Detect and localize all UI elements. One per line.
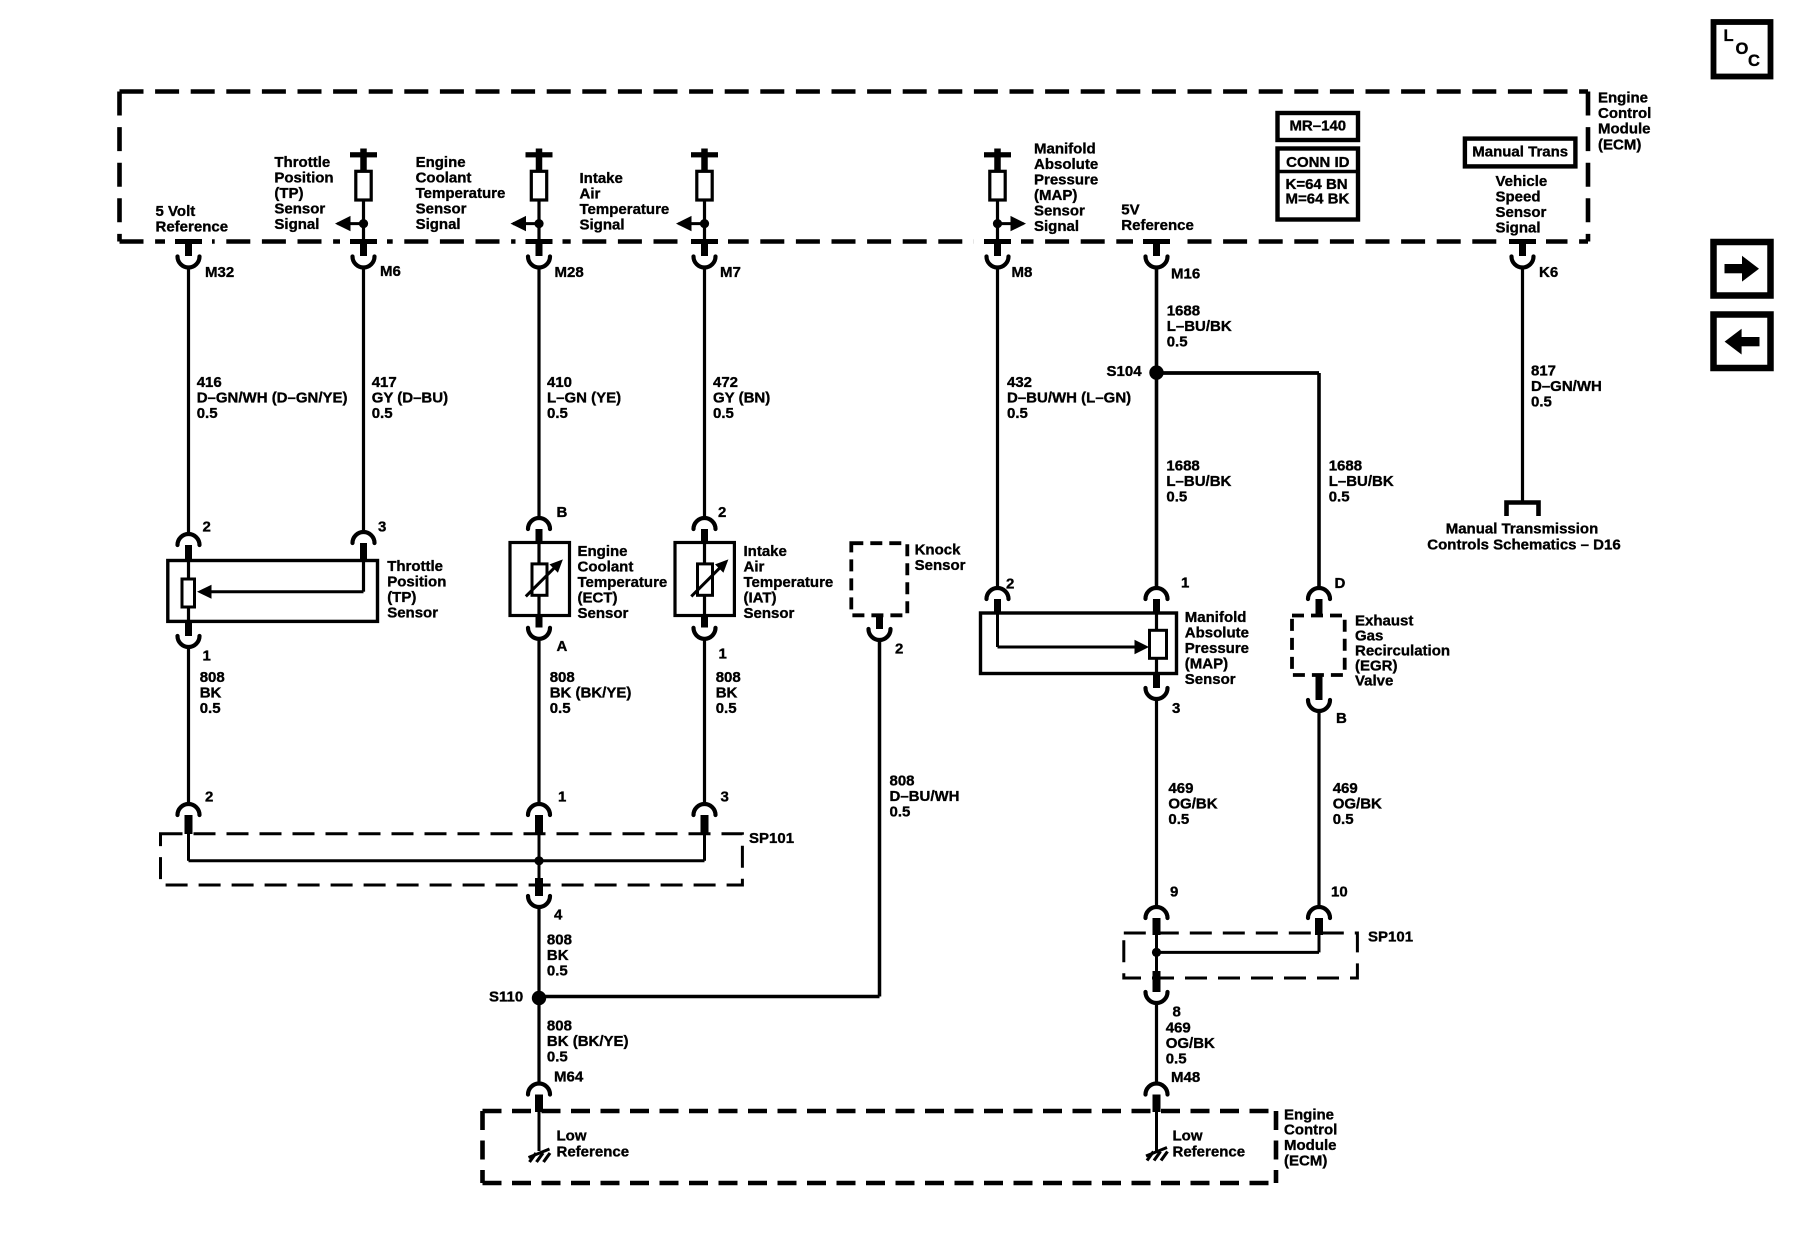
connector M48 xyxy=(1146,1069,1201,1112)
svg-text:0.5: 0.5 xyxy=(197,405,218,422)
exhaust gas recirculation (EGR) valve dashed box xyxy=(1292,616,1345,676)
svg-text:0.5: 0.5 xyxy=(713,405,734,422)
svg-text:OG/BK: OG/BK xyxy=(1166,1035,1215,1052)
wire 469 SP101 pin8 to M48 xyxy=(1155,1003,1158,1084)
svg-text:Sensor: Sensor xyxy=(744,605,795,622)
connector M8 (pin M8) xyxy=(974,238,1032,281)
svg-text:0.5: 0.5 xyxy=(1166,488,1187,505)
SP101 pin 8 connector xyxy=(1146,952,1181,1020)
svg-text:Manifold: Manifold xyxy=(1034,140,1096,157)
svg-text:469: 469 xyxy=(1333,780,1358,797)
svg-text:O: O xyxy=(1736,40,1749,58)
svg-text:Low: Low xyxy=(1173,1127,1203,1144)
TP sensor signal arrow xyxy=(335,216,368,231)
ECT sensor pin A connector xyxy=(528,616,568,655)
svg-text:1688: 1688 xyxy=(1329,457,1362,474)
svg-text:Temperature: Temperature xyxy=(580,201,670,218)
MAP sensor internal resistor xyxy=(1150,613,1167,674)
svg-text:Air: Air xyxy=(744,559,765,576)
resistor R-ECT inside ECM at M28 xyxy=(526,149,553,242)
svg-text:D–BU/WH: D–BU/WH xyxy=(890,788,960,805)
wire 808 IAT pin1 to SP101 pin3 xyxy=(703,638,706,804)
label wire 417 xyxy=(372,374,448,422)
svg-text:(TP): (TP) xyxy=(387,589,416,606)
svg-text:L–BU/BK: L–BU/BK xyxy=(1167,318,1232,335)
svg-text:Throttle: Throttle xyxy=(387,558,443,575)
svg-text:MR–140: MR–140 xyxy=(1289,118,1346,135)
svg-text:808: 808 xyxy=(550,669,575,686)
svg-text:808: 808 xyxy=(547,931,572,948)
svg-text:BK: BK xyxy=(716,684,738,701)
svg-text:M28: M28 xyxy=(555,264,584,281)
svg-text:808: 808 xyxy=(200,669,225,686)
label SP101 left xyxy=(749,830,794,847)
label Vehicle Speed Sensor Signal xyxy=(1496,173,1548,237)
SP101 pin 2 connector xyxy=(178,788,214,834)
ECT sensor signal arrow xyxy=(511,216,544,231)
svg-text:1688: 1688 xyxy=(1167,302,1200,319)
engine control module (ECM) bottom dashed box xyxy=(483,1111,1277,1183)
M64 low reference wire and ground xyxy=(529,1112,551,1162)
svg-text:0.5: 0.5 xyxy=(1329,488,1350,505)
wire 808 SP101 pin4 to S110 xyxy=(537,907,540,999)
svg-text:(TP): (TP) xyxy=(274,185,303,202)
svg-text:BK: BK xyxy=(200,684,222,701)
label wire 808 ECT xyxy=(550,669,632,717)
svg-text:C: C xyxy=(1748,52,1760,70)
label 5 Volt Reference xyxy=(156,203,229,236)
resistor R-IAT inside ECM at M7 xyxy=(691,149,718,242)
label Intake Air Temperature Signal xyxy=(580,170,670,234)
svg-text:Air: Air xyxy=(580,186,601,203)
resistor R-MAP inside ECM at M8 xyxy=(984,149,1011,242)
svg-text:M6: M6 xyxy=(380,263,401,280)
svg-text:M=64 BK: M=64 BK xyxy=(1286,191,1350,208)
SP101 pin 1 connector xyxy=(528,788,566,834)
svg-text:Knock: Knock xyxy=(915,541,962,558)
svg-text:410: 410 xyxy=(547,374,572,391)
label Engine Coolant Temperature (ECT) Sensor xyxy=(578,543,668,622)
wire 416 M32 to TP pin 2 xyxy=(187,267,190,535)
svg-text:469: 469 xyxy=(1168,780,1193,797)
svg-text:Intake: Intake xyxy=(744,543,787,560)
label Low Reference M64 xyxy=(557,1127,630,1160)
svg-text:Sensor: Sensor xyxy=(1185,671,1236,688)
label Engine Control Module (ECM) top right xyxy=(1598,89,1651,153)
svg-text:5V: 5V xyxy=(1121,202,1139,219)
svg-text:L: L xyxy=(1724,27,1734,45)
svg-text:(ECT): (ECT) xyxy=(578,590,618,607)
wire 808 S110 to M64 xyxy=(537,998,540,1084)
svg-text:416: 416 xyxy=(197,374,222,391)
svg-text:469: 469 xyxy=(1166,1019,1191,1036)
label Intake Air Temperature (IAT) Sensor xyxy=(744,543,834,622)
svg-text:0.5: 0.5 xyxy=(1333,811,1354,828)
svg-text:0.5: 0.5 xyxy=(372,405,393,422)
svg-text:0.5: 0.5 xyxy=(550,700,571,717)
svg-text:0.5: 0.5 xyxy=(547,1048,568,1065)
svg-text:10: 10 xyxy=(1331,883,1348,900)
svg-text:Low: Low xyxy=(557,1127,587,1144)
connector M6 (pin M6) xyxy=(340,238,401,280)
svg-text:Position: Position xyxy=(274,170,333,187)
svg-text:B: B xyxy=(557,504,568,521)
off-page connector to manual transmission schematics xyxy=(1507,503,1539,517)
svg-text:Pressure: Pressure xyxy=(1034,171,1098,188)
svg-text:Sensor: Sensor xyxy=(274,201,325,218)
connector M16 (pin M16) xyxy=(1133,238,1200,282)
svg-text:1688: 1688 xyxy=(1166,457,1199,474)
svg-text:Signal: Signal xyxy=(274,216,319,233)
svg-text:Engine: Engine xyxy=(416,154,466,171)
svg-text:M7: M7 xyxy=(720,264,741,281)
label wire 808 TP xyxy=(200,669,225,717)
svg-text:D–GN/WH (D–GN/YE): D–GN/WH (D–GN/YE) xyxy=(197,389,348,406)
svg-text:(IAT): (IAT) xyxy=(744,590,777,607)
svg-text:BK (BK/YE): BK (BK/YE) xyxy=(547,1033,629,1050)
MAP sensor pin 3 connector xyxy=(1146,674,1181,717)
svg-text:B: B xyxy=(1336,710,1347,727)
svg-text:1: 1 xyxy=(1181,574,1189,591)
svg-text:0.5: 0.5 xyxy=(716,700,737,717)
label Low Reference M48 xyxy=(1173,1127,1246,1160)
connector K6 (pin K6) xyxy=(1499,238,1558,281)
svg-text:Manual Transmission: Manual Transmission xyxy=(1446,520,1599,537)
label SP101 right xyxy=(1368,928,1413,945)
svg-text:Reference: Reference xyxy=(1173,1143,1246,1160)
splice pack SP101 left dashed box xyxy=(161,834,743,885)
svg-text:Control: Control xyxy=(1598,105,1651,122)
svg-text:M16: M16 xyxy=(1171,265,1200,282)
svg-text:M8: M8 xyxy=(1012,264,1033,281)
svg-text:Vehicle: Vehicle xyxy=(1496,173,1548,190)
label wire 808 knock xyxy=(890,772,960,820)
svg-text:Pressure: Pressure xyxy=(1185,640,1249,657)
svg-text:Temperature: Temperature xyxy=(744,574,834,591)
svg-text:0.5: 0.5 xyxy=(1167,333,1188,350)
engine coolant temperature (ECT) sensor box xyxy=(510,504,570,616)
svg-text:Coolant: Coolant xyxy=(578,559,634,576)
label wire 808 IAT xyxy=(716,669,741,717)
svg-text:9: 9 xyxy=(1170,883,1178,900)
splice S104 xyxy=(1107,363,1164,380)
svg-text:D: D xyxy=(1335,575,1346,592)
svg-text:Engine: Engine xyxy=(578,543,628,560)
LOC page-reference box xyxy=(1714,22,1771,77)
svg-text:BK (BK/YE): BK (BK/YE) xyxy=(550,684,632,701)
label Exhaust Gas Recirculation (EGR) Valve xyxy=(1355,612,1450,689)
svg-text:SP101: SP101 xyxy=(1368,928,1413,945)
label wire 469 EGR xyxy=(1333,780,1382,828)
svg-text:1: 1 xyxy=(719,645,727,662)
svg-text:M64: M64 xyxy=(554,1068,584,1085)
svg-text:Signal: Signal xyxy=(416,216,461,233)
svg-text:OG/BK: OG/BK xyxy=(1168,795,1217,812)
knock sensor pin 2 connector xyxy=(869,615,904,657)
svg-text:M48: M48 xyxy=(1171,1069,1200,1086)
wire 808 ECT pinA to SP101 pin1 xyxy=(537,638,540,804)
svg-text:1: 1 xyxy=(558,788,566,805)
label Throttle Position (TP) Sensor xyxy=(387,558,446,622)
svg-text:3: 3 xyxy=(378,518,386,535)
svg-text:A: A xyxy=(557,638,568,655)
svg-text:Signal: Signal xyxy=(580,217,625,234)
label wire 469 M48 xyxy=(1166,1019,1215,1067)
IAT sensor pin 1 connector xyxy=(694,616,727,663)
label wire 808 BK(BK/YE) xyxy=(547,1017,629,1065)
wire 817 K6 to manual transmission xyxy=(1521,267,1524,503)
svg-text:Temperature: Temperature xyxy=(578,574,668,591)
wire 410 M28 to ECT pin B xyxy=(537,267,540,519)
label wire 410 xyxy=(547,374,621,422)
TP sensor wiper arrow xyxy=(197,585,364,599)
svg-text:2: 2 xyxy=(895,640,903,657)
svg-text:2: 2 xyxy=(1006,575,1014,592)
label wire 432 xyxy=(1007,374,1131,422)
wire 432 M8 to MAP pin 2 xyxy=(996,267,999,590)
svg-text:Temperature: Temperature xyxy=(416,185,506,202)
svg-text:Manual Trans: Manual Trans xyxy=(1472,144,1568,161)
wire 469 EGR pinB to SP101 pin10 xyxy=(1317,711,1320,908)
svg-text:808: 808 xyxy=(547,1017,572,1034)
svg-text:Reference: Reference xyxy=(557,1143,630,1160)
SP101 left internal bus xyxy=(189,834,705,865)
svg-text:Controls Schematics – D16: Controls Schematics – D16 xyxy=(1427,536,1620,553)
connector M32 (pin M32) xyxy=(165,238,234,281)
label wire 1688 upper xyxy=(1167,302,1232,350)
svg-text:GY (BN): GY (BN) xyxy=(713,389,770,406)
label Throttle Position (TP) Sensor Signal xyxy=(274,154,333,233)
label Knock Sensor xyxy=(915,541,966,574)
svg-text:Sensor: Sensor xyxy=(1496,204,1547,221)
IAT sensor signal arrow xyxy=(676,216,709,231)
svg-text:Sensor: Sensor xyxy=(416,201,467,218)
SP101 pin 4 connector xyxy=(528,861,563,924)
svg-text:432: 432 xyxy=(1007,374,1032,391)
svg-text:Manifold: Manifold xyxy=(1185,609,1247,626)
EGR valve pin B connector xyxy=(1308,675,1347,727)
svg-text:Speed: Speed xyxy=(1496,188,1541,205)
TP sensor pin 1 connector xyxy=(178,621,211,664)
splice S110 xyxy=(489,988,546,1005)
svg-text:0.5: 0.5 xyxy=(547,962,568,979)
back-arrow navigation box xyxy=(1714,315,1771,369)
Manual Trans box xyxy=(1465,139,1576,167)
svg-text:Sensor: Sensor xyxy=(1034,202,1085,219)
svg-text:0.5: 0.5 xyxy=(1168,811,1189,828)
svg-text:L–BU/BK: L–BU/BK xyxy=(1329,473,1394,490)
ECT thermistor xyxy=(526,543,563,616)
splice pack SP101 right dashed box xyxy=(1124,933,1358,978)
label Engine Coolant Temperature Sensor Signal xyxy=(416,154,506,233)
svg-text:0.5: 0.5 xyxy=(1007,405,1028,422)
label Manual Transmission Controls Schematics xyxy=(1427,520,1620,553)
connector M64 xyxy=(528,1068,584,1112)
svg-text:Signal: Signal xyxy=(1034,218,1079,235)
wire 472 M7 to IAT pin 2 xyxy=(703,267,706,519)
svg-text:817: 817 xyxy=(1531,362,1556,379)
svg-text:CONN ID: CONN ID xyxy=(1286,154,1350,171)
svg-text:Coolant: Coolant xyxy=(416,170,472,187)
svg-text:0.5: 0.5 xyxy=(547,405,568,422)
svg-text:Absolute: Absolute xyxy=(1034,156,1098,173)
resistor R-TP inside ECM at M6 xyxy=(350,149,377,242)
svg-text:472: 472 xyxy=(713,374,738,391)
EGR valve pin D connector xyxy=(1308,575,1346,616)
svg-text:3: 3 xyxy=(721,788,729,805)
svg-text:4: 4 xyxy=(554,906,563,923)
manifold absolute pressure (MAP) sensor box xyxy=(981,574,1190,673)
svg-text:BK: BK xyxy=(547,947,569,964)
label wire 472 xyxy=(713,374,770,422)
MAP sensor internal arrow xyxy=(998,613,1150,654)
svg-text:Sensor: Sensor xyxy=(915,557,966,574)
wire S104 branch to EGR xyxy=(1157,373,1320,589)
svg-text:L–GN (YE): L–GN (YE) xyxy=(547,389,621,406)
svg-text:Engine: Engine xyxy=(1598,89,1648,106)
svg-text:Module: Module xyxy=(1598,121,1651,138)
svg-text:2: 2 xyxy=(205,788,213,805)
forward-arrow navigation box xyxy=(1714,242,1771,296)
label wire 817 xyxy=(1531,362,1602,410)
svg-text:808: 808 xyxy=(890,772,915,789)
svg-text:Throttle: Throttle xyxy=(274,154,330,171)
throttle position (TP) sensor box xyxy=(168,518,387,621)
wire 1688 M16 to S104 xyxy=(1155,267,1159,373)
label Manifold Absolute Pressure (MAP) Sensor xyxy=(1185,609,1249,688)
svg-text:2: 2 xyxy=(718,504,726,521)
svg-text:SP101: SP101 xyxy=(749,830,794,847)
svg-text:0.5: 0.5 xyxy=(1166,1050,1187,1067)
wire 808 TP pin1 to SP101 pin2 xyxy=(187,647,190,805)
knock sensor dashed box xyxy=(851,543,907,615)
svg-text:K6: K6 xyxy=(1539,264,1558,281)
svg-text:Intake: Intake xyxy=(580,170,623,187)
svg-text:(MAP): (MAP) xyxy=(1185,656,1228,673)
svg-text:1: 1 xyxy=(203,647,211,664)
SP101 right internal bus xyxy=(1152,935,1319,957)
svg-text:Valve: Valve xyxy=(1355,672,1393,689)
svg-text:OG/BK: OG/BK xyxy=(1333,795,1382,812)
label wire 469 MAP xyxy=(1168,780,1217,828)
MR-140 connector box xyxy=(1278,113,1359,140)
svg-text:0.5: 0.5 xyxy=(1531,393,1552,410)
svg-text:3: 3 xyxy=(1172,700,1180,717)
intake air temperature (IAT) sensor box xyxy=(675,504,734,616)
MAP sensor signal arrow xyxy=(993,216,1026,231)
label wire 416 xyxy=(197,374,348,422)
label wire 1688 left branch xyxy=(1166,457,1231,505)
svg-text:808: 808 xyxy=(716,669,741,686)
wire S110 to knock sensor branch xyxy=(539,995,880,999)
connector M7 (pin M7) xyxy=(681,238,741,281)
svg-text:8: 8 xyxy=(1173,1003,1181,1020)
svg-text:2: 2 xyxy=(203,518,211,535)
svg-text:GY (D–BU): GY (D–BU) xyxy=(372,389,448,406)
connector M28 (pin M28) xyxy=(516,238,584,281)
svg-text:Reference: Reference xyxy=(1121,217,1194,234)
SP101 pin 9 connector xyxy=(1146,883,1179,935)
svg-text:Position: Position xyxy=(387,573,446,590)
svg-text:L–BU/BK: L–BU/BK xyxy=(1166,473,1231,490)
label 5V Reference xyxy=(1121,202,1194,235)
svg-text:S110: S110 xyxy=(489,988,523,1005)
svg-text:M32: M32 xyxy=(205,264,234,281)
svg-text:D–GN/WH: D–GN/WH xyxy=(1531,378,1602,395)
label wire 808 pin4 xyxy=(547,931,572,979)
svg-text:0.5: 0.5 xyxy=(890,803,911,820)
svg-text:5 Volt: 5 Volt xyxy=(156,203,196,220)
svg-text:Reference: Reference xyxy=(156,218,229,235)
wire 1688 S104 to MAP pin 1 xyxy=(1155,373,1159,589)
CONN ID table box xyxy=(1278,149,1359,220)
svg-text:S104: S104 xyxy=(1107,363,1143,380)
svg-text:(MAP): (MAP) xyxy=(1034,187,1077,204)
svg-text:417: 417 xyxy=(372,374,397,391)
label wire 1688 right branch xyxy=(1329,457,1394,505)
svg-text:0.5: 0.5 xyxy=(200,700,221,717)
wire 417 M6 to TP pin 3 xyxy=(362,267,365,532)
svg-text:D–BU/WH (L–GN): D–BU/WH (L–GN) xyxy=(1007,389,1131,406)
svg-text:Signal: Signal xyxy=(1496,219,1541,236)
label Manifold Absolute Pressure (MAP) Sensor Signal xyxy=(1034,140,1098,235)
IAT thermistor xyxy=(691,543,728,616)
svg-text:(ECM): (ECM) xyxy=(1284,1153,1327,1170)
wire 469 MAP pin3 to SP101 pin9 xyxy=(1155,699,1158,908)
wire 808 knock sensor to S110 xyxy=(878,640,882,997)
svg-text:Absolute: Absolute xyxy=(1185,625,1249,642)
svg-text:(ECM): (ECM) xyxy=(1598,136,1641,153)
TP sensor potentiometer xyxy=(182,561,364,622)
M48 low reference wire and ground xyxy=(1146,1112,1168,1161)
label Engine Control Module (ECM) bottom xyxy=(1284,1106,1337,1169)
svg-text:Sensor: Sensor xyxy=(387,604,438,621)
svg-text:Sensor: Sensor xyxy=(578,605,629,622)
engine control module (ECM) dashed box xyxy=(120,92,1589,242)
SP101 pin 3 connector xyxy=(694,788,729,834)
SP101 pin 10 connector xyxy=(1308,883,1348,935)
